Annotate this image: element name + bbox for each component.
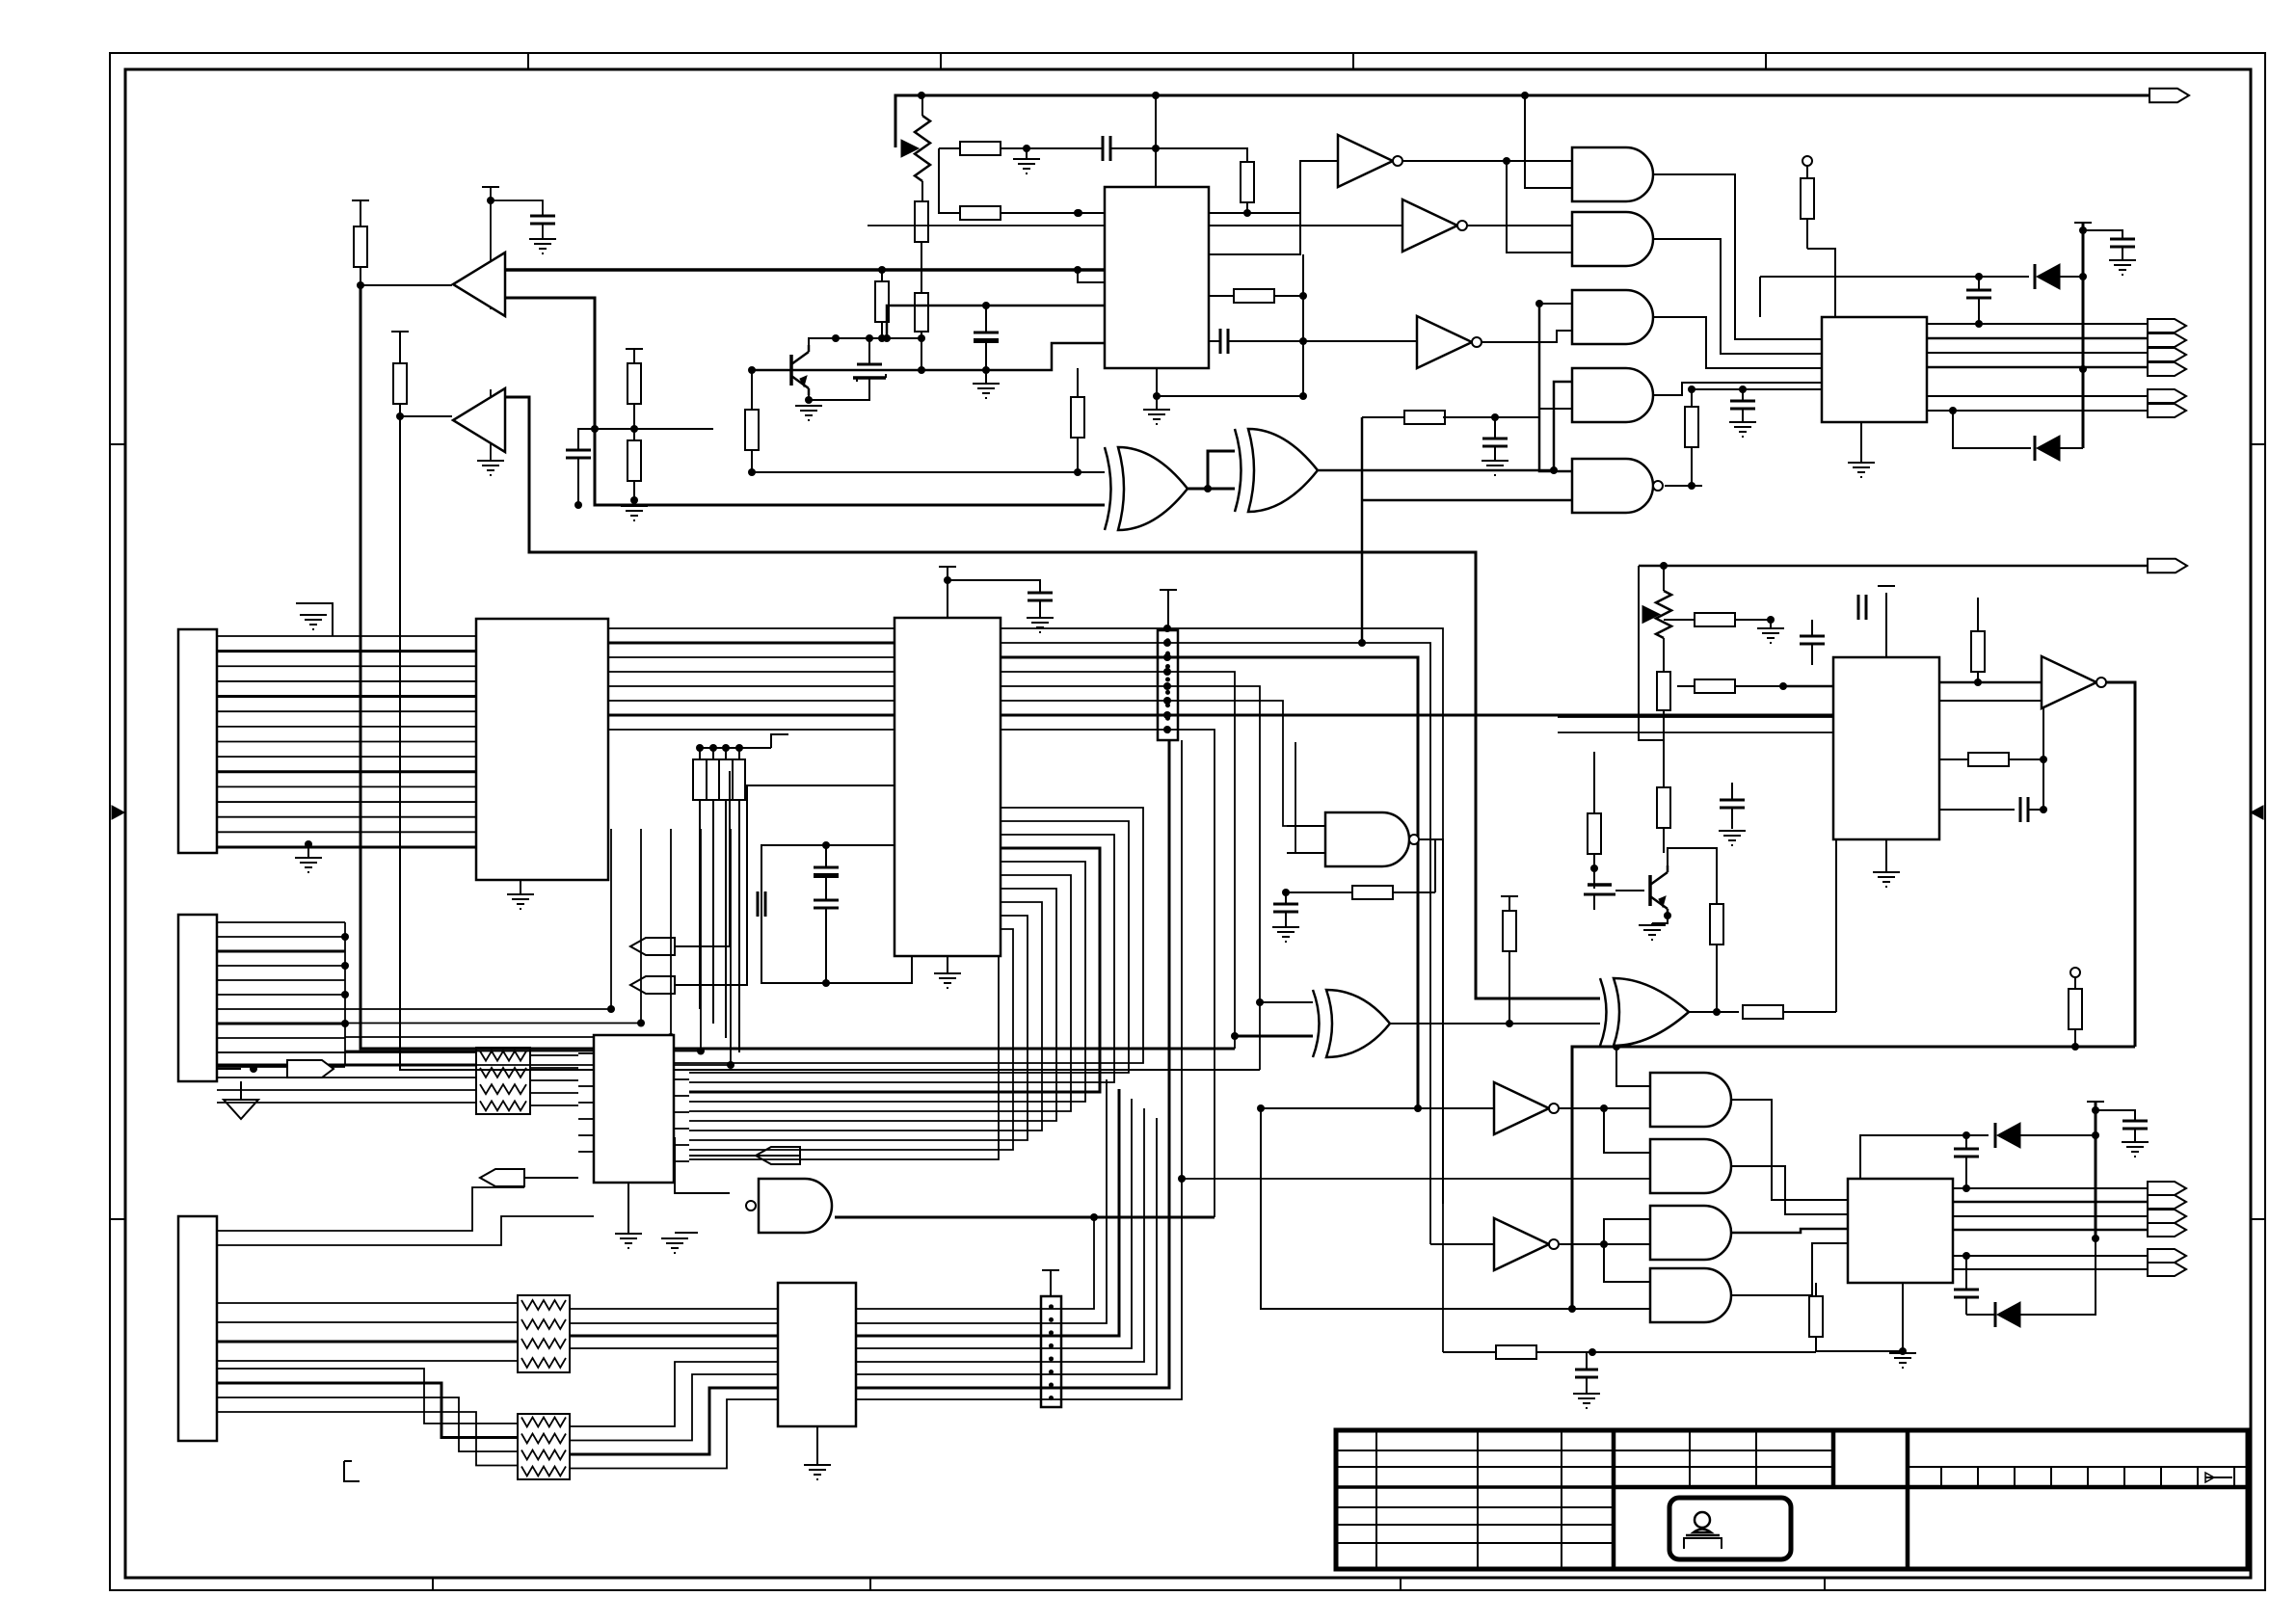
wire J1 pin 8	[217, 740, 476, 742]
wire G1 to U5	[1653, 174, 1822, 339]
wire XORD out	[1689, 1008, 1739, 1016]
inverter INV4	[2042, 656, 2106, 708]
wire J3-RN2 1	[217, 1302, 518, 1304]
wire G2 to U5	[1653, 239, 1822, 354]
capacitor C16	[1833, 595, 1866, 620]
diode D2	[2035, 436, 2060, 461]
wire XORC out	[1390, 1023, 1600, 1024]
ground B2	[477, 461, 504, 475]
ground C18	[1719, 831, 1746, 845]
wire B1 out jog	[1078, 270, 1105, 282]
wire XORB in2	[1208, 488, 1235, 491]
wire J2 pin 9	[217, 1037, 345, 1039]
output flag U7-1	[2148, 1182, 2186, 1195]
wire J1 pin 2	[217, 650, 476, 652]
frame tick bottom 4	[1824, 1578, 1826, 1590]
capacitor C3	[566, 429, 595, 509]
wire U7 out 5	[1953, 1255, 2148, 1257]
capacitor C22	[1575, 1352, 1598, 1394]
wire GB1 top rail	[1572, 1043, 2135, 1309]
wire B1 out lower	[504, 298, 595, 429]
wire INV1 branch	[1507, 161, 1572, 253]
frame tick bottom 3	[1400, 1578, 1402, 1590]
wire U2 vcc	[944, 567, 951, 618]
wire U8 right bus 5	[856, 1108, 1144, 1362]
wire U1-U2 bus 1	[608, 627, 894, 629]
wire J3-RN2 4	[217, 1360, 518, 1362]
resistor pack lead down 3	[725, 800, 727, 1038]
wire R14 node	[1491, 413, 1499, 439]
output flag U7b-1	[2148, 1249, 2186, 1263]
resistor R28	[1809, 1283, 1823, 1351]
wire J2 pin 6	[217, 994, 345, 996]
resistor R24	[1971, 598, 1985, 686]
ground Q3	[1639, 923, 1666, 940]
wire D2 branch	[1949, 407, 2031, 448]
AND gate GB3	[1650, 1206, 1731, 1260]
capacitor C5	[1220, 329, 1228, 354]
frame arrow right	[2251, 806, 2263, 819]
wire xtal loop	[761, 841, 912, 987]
wire INV4 out	[2102, 682, 2135, 1047]
wire R7 dot	[1075, 209, 1082, 217]
wire vcc cap link	[2083, 230, 2122, 239]
wire INV7 in	[1430, 1243, 1494, 1245]
wire J2 to RN1 5	[217, 1102, 476, 1104]
wire J2 to RN1 2	[217, 1064, 476, 1067]
capacitor C1	[530, 216, 555, 224]
wire U2-U4 bus 10	[689, 929, 1013, 1150]
wire C5 to INV3	[1228, 340, 1417, 342]
resistor pack lead down 4	[738, 800, 740, 1052]
connector J3	[178, 1216, 217, 1441]
wire U2-U4 bus 9	[689, 916, 1028, 1140]
wire J2 pin 11	[217, 1066, 345, 1068]
wire U7 out 3	[1953, 1215, 2148, 1217]
resistor pack top leads	[696, 734, 788, 759]
transistor Q3	[1650, 865, 1668, 916]
wire U8 right bus 7	[856, 740, 1169, 1388]
wire J2 pin 1	[217, 921, 345, 923]
wire NAND6 in2	[1287, 852, 1325, 854]
output flag U5-3	[2148, 348, 2186, 361]
IC U8	[778, 1283, 856, 1426]
wire RN3-U8 3	[570, 1388, 778, 1454]
inverter INV7	[1494, 1218, 1559, 1270]
wire J1 pin 11	[217, 785, 476, 787]
wire R5 bottom row	[748, 343, 1104, 374]
resistor R22h	[1664, 613, 1771, 626]
resistor Rb top	[1801, 156, 1814, 249]
wire B1 out upper	[504, 266, 1105, 274]
wire R28 bottom	[1816, 1347, 1907, 1355]
wire out2 rail	[1639, 562, 2152, 570]
wire J3-RN2 3	[217, 1341, 518, 1344]
wire D1 to vert	[2060, 273, 2087, 280]
wire J3 up 2	[217, 1216, 594, 1245]
VCC bar U7	[2087, 1102, 2104, 1238]
wire U8 right bus 3	[856, 1089, 1119, 1336]
wire U8 right bus 1	[856, 1217, 1094, 1309]
wire U2-U4 bus 2	[689, 821, 1129, 1073]
resistor network RN3	[518, 1414, 570, 1479]
wire R8 to U3	[1074, 209, 1300, 217]
wire RN1-U4 4	[530, 1092, 578, 1094]
frame tick top 4	[1765, 53, 1767, 69]
wire U1-U2 bus 6	[608, 700, 894, 702]
wire GB2 in2 feed	[1178, 1175, 1650, 1183]
wire C17 link	[2028, 759, 2043, 810]
ground R6	[1013, 159, 1040, 173]
wire U1-U2 bus 7	[608, 714, 894, 717]
wire GB3 in1	[1604, 1219, 1650, 1244]
wire U8 right bus 6	[856, 1118, 1157, 1374]
output flag U5b-2	[2148, 404, 2186, 417]
input flag F3	[756, 1147, 800, 1164]
wire J2 pin 4	[217, 965, 345, 967]
resistor R7	[960, 206, 1105, 220]
AND gate GB1	[1650, 1073, 1731, 1127]
wire J3-RN3 1	[217, 1369, 518, 1423]
wire U2 right bus 6	[1001, 697, 1325, 826]
wire J2 tie vertical	[341, 922, 349, 1065]
capacitor C12	[1730, 401, 1755, 409]
title block right strip	[1908, 1467, 2248, 1487]
wire U6 top vcc	[1885, 593, 1887, 657]
wire G7 in	[675, 1137, 730, 1193]
wire J2 pin 3	[217, 950, 345, 953]
wire J1 pin 12	[217, 801, 476, 803]
wire NAND6 feedback	[1282, 889, 1352, 896]
connector J1	[178, 629, 217, 853]
wire GB out staircase1	[1732, 1100, 1848, 1200]
wire R6 gnd node	[1023, 145, 1030, 159]
pin header H2	[1041, 1296, 1061, 1407]
ground U7	[1889, 1283, 1916, 1368]
AND gate G2	[1572, 212, 1653, 266]
wire INV7 out	[1557, 1240, 1650, 1248]
wire INV5 out	[1557, 1104, 1650, 1112]
diode D1	[2035, 264, 2060, 289]
resistor R5	[915, 201, 928, 242]
wire U5 out 4	[1927, 366, 2148, 369]
wire B1 power	[490, 187, 492, 309]
resistor RQ2	[875, 266, 889, 342]
wire G7 out	[835, 1213, 1215, 1221]
output arrow top rail	[0, 0, 1, 1]
wire Q3 collector	[1668, 848, 1717, 904]
capacitor C4	[1103, 136, 1110, 161]
wire J2 to RN1 4	[217, 1089, 476, 1091]
VCC bar R3a	[626, 348, 643, 350]
VCC bar B1	[482, 186, 499, 188]
wire NAND5 in2b	[1362, 499, 1572, 502]
ground C2	[973, 370, 1000, 398]
resistor R18	[1743, 1005, 1836, 1019]
output flag net1	[2149, 89, 2189, 102]
wire D4 branch	[1962, 1252, 1970, 1290]
NAND gate G5	[1572, 459, 1663, 513]
wire INV1 out	[1397, 157, 1572, 165]
crystal Y1	[814, 845, 839, 900]
wire U5 out 6	[1927, 410, 2148, 412]
wire R18 right	[1835, 839, 1837, 1012]
input flag F4	[480, 1169, 524, 1186]
IC U4 with pin stubs	[578, 1035, 689, 1183]
ground R22	[1757, 616, 1784, 643]
VCC bar U6	[1878, 585, 1895, 587]
output flag U5-1	[2148, 319, 2186, 333]
wire R19 node	[1590, 865, 1598, 889]
XOR gate X2	[1235, 429, 1318, 512]
wire U2 right bus 4	[1001, 668, 1235, 1049]
wire G4 in2	[1539, 408, 1572, 410]
NAND gate G6	[1325, 812, 1419, 866]
wire U2 vcc cap	[948, 580, 1040, 593]
resistor R25	[1939, 753, 2047, 766]
approval stamp box	[1669, 1498, 1791, 1559]
wire J3-RN2 2	[217, 1321, 518, 1323]
wire RN2-U8 4	[570, 1347, 778, 1349]
wire RN1-U4 5	[530, 1104, 578, 1106]
AND gate G1	[1572, 147, 1653, 201]
output flag U5-4	[2148, 362, 2186, 376]
wire U6 left wires2	[1558, 732, 1833, 733]
wire J1 pin 7	[217, 726, 476, 728]
wire NAND5 out	[1665, 482, 1702, 490]
wire GB out staircase3	[1732, 1229, 1848, 1233]
wire J1 pin 9	[217, 756, 476, 758]
wire U7 out 4	[1953, 1229, 2148, 1232]
wire NAND6 in1	[1287, 825, 1325, 827]
wire J2 pin 10	[217, 1051, 345, 1053]
zener Z2	[1584, 885, 1615, 910]
wire U3 pin 264	[1209, 161, 1338, 254]
wire C4 right	[1110, 145, 1247, 162]
wire U6 in left a	[1558, 716, 1833, 718]
wire B2 out	[504, 397, 1600, 998]
frame tick top 1	[527, 53, 529, 69]
diode D3	[1995, 1123, 2020, 1148]
wire J2 staircase 5	[216, 1064, 218, 1066]
resistor R27	[2069, 968, 2082, 1047]
title block outline	[1336, 1430, 2248, 1569]
ground U1 bottom	[507, 880, 534, 909]
wire J1 pin 13	[217, 816, 476, 818]
capacitor C14	[1273, 892, 1298, 927]
XOR gate X4	[1600, 978, 1689, 1046]
wire R6 left drop	[939, 148, 960, 213]
resistor R23h	[1677, 679, 1787, 693]
wire XORC in2	[1231, 1032, 1313, 1040]
frame arrow left	[112, 806, 124, 819]
wire U2-U4 bus 7	[689, 889, 1056, 1121]
wire J2 down marker	[240, 1081, 242, 1100]
input flag F1	[630, 771, 730, 955]
wire NAND5 in2	[1358, 417, 1366, 647]
wire U6 right pin	[1939, 806, 2047, 813]
buffer B1	[453, 253, 505, 316]
ground U3	[1143, 368, 1170, 424]
ground U8	[804, 1426, 831, 1479]
output flag U7-2	[2148, 1195, 2186, 1209]
wire C1 gnd	[542, 224, 544, 239]
wire D2 to vert	[2060, 447, 2083, 449]
resistor R1	[354, 200, 367, 285]
resistor pack lead down 1	[699, 800, 701, 1009]
ground Q1	[795, 406, 822, 420]
output flag U7b-2	[2148, 1263, 2186, 1276]
resistor RU3	[1071, 368, 1084, 472]
capacitor C11	[758, 891, 765, 917]
wire GB4 in2	[1572, 1308, 1650, 1310]
wire U2-U4 bus 5	[689, 862, 1085, 1102]
wire Z1 link	[809, 378, 869, 400]
ground C14	[1272, 927, 1299, 942]
wire R19 top	[1593, 752, 1595, 790]
resistor network RN2	[518, 1295, 570, 1372]
wire Q3 emitter gnd	[1652, 912, 1671, 923]
wire J1 pin 5	[217, 695, 476, 698]
wire diode row1	[1759, 277, 1761, 317]
resistor R21	[1657, 672, 1670, 787]
wire G1 in2 pullup	[1521, 92, 1572, 188]
resistor R5b	[915, 242, 928, 370]
zener Z1	[853, 338, 886, 382]
wire vcc to C1	[487, 197, 543, 216]
wire U5 top link	[1807, 249, 1835, 317]
resistor R6	[939, 142, 1027, 155]
capacitor C6	[1966, 277, 1991, 328]
frame tick left b	[110, 1218, 125, 1220]
wire J2 to RN1 3	[217, 1077, 476, 1078]
VCC bar H1	[1160, 590, 1177, 630]
wire C12 drop	[1742, 389, 1744, 401]
resistor R17	[1503, 896, 1516, 1027]
capacitor C9	[1482, 439, 1508, 446]
output flag U5-2	[2148, 333, 2186, 347]
wire U7 top loop	[1860, 1135, 1989, 1179]
AND gate G3	[1572, 290, 1653, 344]
capacitor C7	[2110, 239, 2135, 247]
wire U3 bottom link	[1157, 395, 1303, 397]
wire J1 pin 6	[217, 710, 476, 712]
wire RN2-U8 1	[570, 1308, 778, 1310]
capacitor C10	[1028, 593, 1053, 600]
capacitor C18	[1720, 783, 1745, 829]
output flag U5b-1	[2148, 389, 2186, 403]
VCC bar R1	[352, 200, 369, 201]
transistor Q1	[791, 345, 809, 395]
ground U5	[1848, 422, 1875, 477]
capacitor C17	[1939, 797, 2028, 822]
wire INV3 out	[1477, 331, 1572, 342]
resistor pack RP1	[693, 759, 745, 800]
title block strip arrow	[2205, 1473, 2232, 1482]
inverter INV1	[1338, 135, 1402, 187]
wire INV5 in	[1257, 1104, 1494, 1112]
wire U2 right bus 7	[1001, 711, 1833, 719]
ground C10	[1027, 600, 1054, 632]
ground C1	[529, 239, 556, 253]
ground J1 mid	[295, 840, 322, 872]
wire XORA out	[1188, 451, 1235, 492]
capacitor C19	[1954, 1131, 1979, 1192]
wire RN1-U4 1	[530, 1054, 578, 1056]
wire J2 staircase bundle	[345, 829, 734, 1069]
wire Q1 base drop	[751, 370, 753, 410]
frame tick right b	[2251, 1218, 2265, 1220]
wire RN3-U8 1	[570, 1362, 778, 1426]
potentiometer RP2	[901, 95, 930, 201]
wire R12 top	[1688, 386, 1822, 393]
wire U5 out 2	[1927, 337, 2148, 340]
ground C12	[1729, 409, 1756, 437]
resistor R2	[393, 332, 407, 416]
wire vertical 1597	[1539, 304, 1572, 471]
wire RN3-U8 4	[570, 1399, 778, 1469]
wire XORA in1	[748, 468, 1105, 476]
wire U3 pin 354	[1209, 340, 1220, 342]
wire J2 pin 2	[217, 936, 345, 938]
wire node A to XOR row	[591, 425, 713, 433]
wire U2 right bus 3	[1001, 653, 1418, 1108]
wire U7 out 2	[1953, 1201, 2148, 1204]
resistor R19	[1588, 790, 1601, 868]
resistor R12	[1685, 389, 1698, 486]
wire GB out staircase4	[1732, 1243, 1848, 1295]
wire F4 link	[524, 1177, 578, 1179]
resistor R16	[1352, 839, 1435, 899]
ground R3b	[621, 496, 648, 520]
ground U6	[1873, 839, 1900, 887]
capacitor C2	[974, 306, 999, 370]
wire U2-U4 bus 3	[689, 835, 1114, 1082]
AND gate GB2	[1650, 1139, 1731, 1193]
wire RN1-U4 3	[530, 1079, 578, 1081]
wire J3-RN3 2	[217, 1383, 518, 1438]
NAND gate G7 (mirrored)	[746, 1179, 832, 1233]
IC U5	[1822, 317, 1927, 422]
buffer B2	[453, 388, 505, 452]
wire INV4 in	[1939, 681, 2042, 684]
wire XORA in2	[595, 429, 1105, 505]
wire D4 right	[2020, 1235, 2099, 1315]
wire U2 right bus 1	[1001, 625, 1443, 1352]
wire J2 staircase 4	[216, 1051, 218, 1052]
wire U8 right bus 8	[856, 740, 1182, 1399]
wire U1-U2 bus 5	[608, 685, 894, 687]
wire GB4 in	[1604, 1244, 1650, 1282]
VCC bar top right	[2074, 222, 2092, 224]
resistor network RN1	[476, 1048, 530, 1114]
wire J1 pin 15	[217, 845, 476, 848]
resistor pack lead down 2	[712, 800, 714, 1024]
wire U5 out 5	[1927, 395, 2148, 397]
capacitor C21	[1954, 1290, 1979, 1315]
wire U1-U2 bus 3	[608, 656, 894, 658]
wire INV5 to GB4 row	[1261, 1108, 1576, 1313]
wire J2 flag	[217, 1065, 257, 1073]
wire G3 to U5	[1653, 317, 1822, 368]
wire J2 pin 7	[217, 1008, 345, 1010]
wire U2 right bus 2	[1001, 639, 1430, 1244]
wire J2 pin 5	[217, 979, 345, 981]
diode D4	[1995, 1302, 2020, 1327]
wire U3 top pin	[1152, 92, 1160, 187]
wire D3 right	[2020, 1131, 2099, 1139]
IC U2	[894, 618, 1001, 956]
